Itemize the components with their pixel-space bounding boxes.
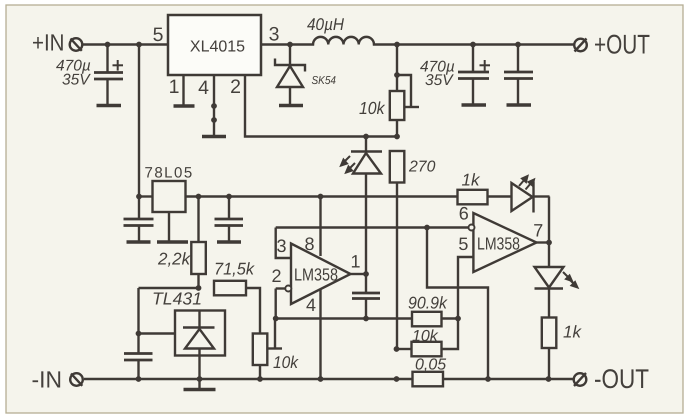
shunt regulator U4 TL431: [175, 311, 225, 380]
resistor R2 2,2k: [191, 197, 206, 289]
svg-text:6: 6: [459, 204, 469, 224]
svg-text:7: 7: [533, 221, 543, 241]
junction dot 270 net on bottom rail: [394, 376, 400, 382]
regulator U3 78L05: [153, 181, 186, 212]
ground under 78L05 input cap: [127, 240, 151, 244]
ground under C2: [462, 103, 487, 107]
wire: TL431 ref pin: [139, 332, 176, 334]
resistor R6 1k: [458, 190, 488, 205]
svg-text:-IN: -IN: [32, 367, 63, 393]
IC U1 XL4015 buck converter: [168, 15, 261, 75]
wire: XL4015 pin 3 to inductor: [261, 43, 313, 45]
svg-text:35V: 35V: [425, 72, 454, 89]
wire: LED D3 cathode down to op2 output: [548, 197, 550, 243]
terminal +OUT: [574, 39, 587, 52]
potentiometer R1 10k voltage adjust: [390, 45, 419, 137]
junction dot op1 pin4 on bottom rail: [318, 376, 324, 382]
svg-text:3: 3: [269, 24, 280, 46]
ground under C3: [507, 103, 532, 107]
wire: Vref node down to TL431 ref: [137, 288, 139, 353]
junction dot pot wiper tie: [394, 72, 400, 78]
capacitor at 78L05 input: [124, 197, 154, 241]
svg-text:TL431: TL431: [152, 289, 202, 309]
junction dot TL431 anode on bottom rail: [197, 376, 203, 382]
arrows of LED D4: [563, 272, 578, 288]
svg-text:LM358: LM358: [477, 234, 520, 254]
junction dot C2 node: [470, 42, 476, 48]
svg-text:270: 270: [408, 159, 436, 176]
capacitor C3 output ceramic: [504, 45, 533, 104]
junction dot SK54 node: [287, 42, 293, 48]
svg-text:8: 8: [304, 234, 314, 254]
junction dot pot top on rail: [394, 42, 400, 48]
junction dot op1 pin2 net: [273, 316, 279, 322]
junction dot 10k left node: [394, 346, 400, 352]
diode D1 SK54 schottky: [275, 45, 305, 105]
junction dot op1 output: [363, 271, 369, 277]
capacitor at 78L05 output: [215, 197, 244, 241]
ground under C1: [97, 104, 122, 108]
junction dot op2 output pin7: [546, 240, 552, 246]
svg-text:40µH: 40µH: [307, 15, 345, 34]
junction dot C3 node: [515, 42, 521, 48]
junction dot 78L05 branch node: [136, 42, 142, 48]
resistor R7 1k: [542, 318, 557, 380]
arrows of LED D3: [519, 176, 534, 190]
junction dot on pin 4 wire lower: [211, 117, 217, 123]
terminal -OUT: [574, 373, 587, 386]
wire: 5V rail from 78L05 output: [186, 195, 458, 197]
wire: 78L05 ground pin: [168, 212, 170, 241]
svg-text:5: 5: [458, 234, 468, 254]
svg-text:2: 2: [230, 76, 241, 98]
wire: XL4015 pin 4 stub: [213, 75, 215, 135]
wire: op1 pin2 feedback rail: [276, 317, 412, 319]
svg-text:2,2k: 2,2k: [157, 250, 192, 269]
junction dot 270 top node: [394, 134, 400, 140]
wire: net op1 pin3 to op2 pin6: [276, 226, 469, 228]
ground under SK54: [279, 104, 303, 108]
junction dot op2 pin5 divider node: [455, 316, 461, 322]
capacitor integrator feedback: [352, 274, 380, 319]
wire: +IN rail to XL4015 pin 5: [83, 43, 168, 45]
capacitor at TL431 ref: [124, 354, 153, 380]
svg-text:10k: 10k: [273, 353, 299, 372]
junction dot op-amp V+ branch: [318, 194, 324, 200]
svg-text:78L05: 78L05: [145, 165, 194, 182]
svg-text:4: 4: [306, 295, 316, 315]
wire: bottom rail -IN side: [84, 378, 413, 380]
inductor L1 40uH: [313, 37, 374, 45]
LED D4 indicator: [535, 267, 564, 318]
ground at 78L05: [157, 240, 188, 244]
junction dot 2,2k branch: [196, 194, 202, 200]
junction dot Vref node: [196, 285, 202, 291]
terminal +IN: [70, 38, 83, 51]
resistor R5 270: [390, 151, 405, 349]
wire: Vref node left: [139, 287, 199, 289]
junction dot TL431 ref: [136, 331, 142, 337]
trimmer R4 10k: [253, 319, 282, 380]
LED D3 indicator: [512, 182, 550, 213]
svg-text:3: 3: [276, 236, 286, 256]
svg-text:+OUT: +OUT: [594, 30, 650, 60]
wire: XL4015 pin 1 stub: [182, 75, 184, 105]
wire: +IN rail down to 78L05 input: [138, 45, 140, 197]
svg-text:0,05: 0,05: [415, 357, 446, 374]
ground at XL4015 pin 4: [202, 135, 226, 139]
op-amp U2a LM358: [276, 197, 366, 380]
wire: bottom rail -OUT side: [443, 378, 574, 380]
svg-text:SK54: SK54: [312, 75, 337, 87]
wire: op2 output down to LED D4: [548, 243, 550, 267]
svg-text:5: 5: [153, 24, 164, 46]
resistor R9 10k: [397, 319, 459, 357]
junction dot feedback cap node: [363, 316, 369, 322]
wire: op2 pin6 to current shunt: [427, 228, 488, 380]
wire: XL4015 pin 2 down and right to feedback node: [245, 75, 397, 137]
svg-text:71,5k: 71,5k: [214, 260, 255, 279]
svg-text:2: 2: [271, 266, 281, 286]
svg-text:35V: 35V: [62, 72, 91, 89]
ground below TL431 anode: [198, 379, 200, 388]
arrows of LED D2: [341, 156, 355, 173]
svg-text:LM358: LM358: [294, 265, 338, 285]
svg-text:90.9k: 90.9k: [408, 294, 448, 313]
svg-text:4: 4: [198, 77, 209, 99]
svg-text:-OUT: -OUT: [594, 364, 649, 394]
junction dot on pin 4 wire upper: [211, 103, 217, 109]
svg-text:1: 1: [350, 252, 360, 272]
junction dot sense branch on bottom rail: [485, 376, 491, 382]
resistor R10 0,05 current shunt: [413, 372, 444, 387]
svg-text:1k: 1k: [563, 323, 582, 342]
ground at XL4015 pin 1: [174, 104, 195, 108]
resistor R8 90.9k: [412, 312, 458, 327]
op-amp U2b LM358: [458, 213, 549, 319]
terminal -IN: [70, 373, 83, 386]
junction dot input cap node: [105, 42, 111, 48]
svg-text:XL4015: XL4015: [190, 39, 245, 56]
junction dot D2 top node: [363, 134, 369, 140]
svg-text:10k: 10k: [412, 328, 439, 345]
wire: inductor to +OUT terminal: [374, 43, 574, 45]
wire: 1k to LED D3: [488, 195, 512, 197]
LED D2 optocoupler emitter: [351, 137, 382, 275]
junction dot ref cap on bottom rail: [136, 376, 142, 382]
svg-text:+IN: +IN: [32, 30, 65, 56]
junction dot 78L05 input: [136, 194, 142, 200]
ground under 78L05 output cap: [217, 240, 241, 244]
capacitor C1 470u/35V electrolytic at input: [94, 45, 123, 105]
junction dot trimmer on bottom rail: [257, 376, 263, 382]
junction dot output cap branch: [226, 194, 232, 200]
svg-text:1k: 1k: [462, 171, 481, 190]
resistor R3 71,5k: [214, 281, 260, 334]
junction dot current sense branch: [424, 225, 430, 231]
junction dot 1k on bottom rail: [546, 376, 552, 382]
svg-text:1: 1: [169, 76, 180, 98]
wire: 78L05 input stub: [139, 195, 153, 197]
svg-text:10k: 10k: [359, 98, 386, 118]
capacitor C2 470u/35V electrolytic at output: [458, 45, 490, 104]
